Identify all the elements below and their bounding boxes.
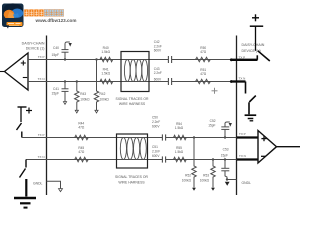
- svg-text:TX P: TX P: [239, 132, 246, 136]
- op-amp U1 (receiver, device 1): [0, 53, 28, 90]
- svg-text:47Ω: 47Ω: [200, 72, 207, 76]
- svg-text:www.dfbw123.com: www.dfbw123.com: [35, 18, 77, 23]
- svg-text:DEVICE (1): DEVICE (1): [26, 46, 45, 50]
- svg-text:100kΩ: 100kΩ: [182, 179, 192, 183]
- svg-text:100kΩ: 100kΩ: [200, 179, 210, 183]
- resistor R55: [174, 157, 187, 161]
- svg-text:47Ω: 47Ω: [78, 125, 85, 129]
- capacitor C53: [221, 158, 229, 185]
- svg-text:1.5kΩ: 1.5kΩ: [101, 71, 110, 75]
- svg-text:100kΩ: 100kΩ: [100, 97, 110, 101]
- resistor R50: [196, 57, 211, 61]
- ground (device 1): [14, 198, 36, 208]
- svg-text:15pF: 15pF: [208, 123, 215, 127]
- top harness label: [116, 97, 150, 106]
- switch (device 1 lower) to ground: [20, 160, 27, 197]
- resistor R52: [192, 136, 196, 191]
- svg-text:WIRE HARNESS: WIRE HARNESS: [119, 102, 146, 106]
- ground (device N): [245, 115, 257, 121]
- svg-text:C43: C43: [154, 67, 160, 71]
- svg-text:SIGNAL TRACES OR: SIGNAL TRACES OR: [116, 97, 150, 101]
- wire: op-amp + input: [28, 59, 47, 61]
- capacitor C50: [162, 134, 166, 140]
- resistor R54: [174, 135, 187, 139]
- svg-text:2.2nF: 2.2nF: [152, 120, 160, 124]
- svg-text:R52: R52: [185, 174, 191, 178]
- resistor R45: [75, 157, 88, 161]
- bold pin wire C (device N): [237, 136, 258, 138]
- capacitor C52: [221, 122, 232, 139]
- svg-text:15pF: 15pF: [51, 92, 59, 96]
- twisted pair box (bottom): [117, 134, 148, 168]
- svg-text:R53: R53: [203, 174, 209, 178]
- wire A (top line): [47, 59, 232, 61]
- svg-text:600V: 600V: [154, 78, 162, 82]
- twisted pair coils (bottom): [120, 138, 146, 160]
- svg-text:600V: 600V: [152, 154, 160, 158]
- resistor R40: [100, 57, 113, 61]
- switch (device N lower) to ground: [230, 80, 256, 114]
- GNDL wire + arrow (left): [47, 181, 63, 191]
- svg-text:1.5kΩ: 1.5kΩ: [101, 50, 110, 54]
- wire: op-amp - input: [28, 81, 47, 83]
- svg-text:R42: R42: [100, 92, 106, 96]
- svg-text:SIGNAL TRACES OR: SIGNAL TRACES OR: [115, 175, 149, 179]
- svg-text:600V: 600V: [152, 124, 160, 128]
- wire D (bottom lower line): [47, 159, 237, 161]
- resistor R53: [211, 158, 215, 191]
- GNDL wire (right): [227, 179, 237, 181]
- svg-text:C51: C51: [152, 145, 158, 149]
- twisted pair coils (top): [124, 60, 147, 82]
- capacitor C41: [62, 80, 69, 104]
- polarity mark +: [212, 88, 218, 94]
- svg-text:DAISY-CHAIN: DAISY-CHAIN: [22, 42, 45, 46]
- wire: device 1 pin to switch (wire C inside): [22, 137, 47, 139]
- svg-text:WIRE HARNESS: WIRE HARNESS: [118, 180, 145, 184]
- svg-text:TX P: TX P: [38, 133, 45, 137]
- bold pin wire D (device N): [237, 158, 258, 160]
- twisted pair box (top): [121, 52, 149, 92]
- svg-text:TX N: TX N: [38, 155, 45, 159]
- resistor R51: [196, 79, 211, 83]
- svg-text:C53: C53: [223, 148, 229, 152]
- wire: device 1 lower pin (wire D inside): [26, 159, 47, 161]
- op-amp U2 (receiver, device N): [258, 131, 300, 164]
- svg-text:C41: C41: [53, 87, 59, 91]
- capacitor C40: [62, 42, 72, 61]
- device N label: [242, 43, 265, 53]
- svg-text:2.2nF: 2.2nF: [154, 71, 162, 75]
- resistor R42: [94, 58, 98, 113]
- svg-text:TX P: TX P: [38, 55, 45, 59]
- svg-text:TX N: TX N: [239, 154, 246, 158]
- wire C (bottom top line): [47, 137, 237, 139]
- svg-text:1.5kΩ: 1.5kΩ: [175, 126, 184, 130]
- svg-text:600V: 600V: [154, 49, 162, 53]
- battery cell (device 1): [18, 107, 33, 122]
- battery cell (device N): [250, 14, 263, 51]
- resistor R43: [75, 80, 79, 113]
- svg-text:C40: C40: [53, 46, 59, 50]
- svg-text:15pF: 15pF: [221, 153, 228, 157]
- wire B (second line): [47, 81, 232, 83]
- device N boundary: [236, 36, 238, 196]
- bottom harness label: [115, 175, 149, 184]
- capacitor C42: [168, 56, 172, 63]
- svg-text:47Ω: 47Ω: [200, 50, 207, 54]
- svg-text:2.2nF: 2.2nF: [152, 150, 160, 154]
- svg-text:GNDL: GNDL: [33, 182, 43, 186]
- switch (device N top): [230, 51, 270, 61]
- resistor R41: [100, 79, 113, 83]
- svg-text:C50: C50: [152, 115, 158, 119]
- device 1 label: [22, 42, 45, 51]
- capacitor C43: [168, 78, 172, 85]
- svg-text:TX N: TX N: [239, 77, 246, 81]
- svg-text:TX N: TX N: [38, 77, 45, 81]
- svg-text:GNDL: GNDL: [242, 181, 252, 185]
- capacitor C51: [162, 156, 166, 162]
- svg-text:1.5kΩ: 1.5kΩ: [175, 150, 184, 154]
- logo icon: [2, 3, 24, 28]
- svg-text:R43: R43: [80, 92, 86, 96]
- switch (device 1 top, to wire C): [17, 123, 22, 138]
- svg-text:47Ω: 47Ω: [78, 150, 85, 154]
- logo cjk text: [24, 9, 63, 16]
- svg-text:15pF: 15pF: [51, 53, 59, 57]
- svg-text:DAISY-CHAIN: DAISY-CHAIN: [242, 43, 265, 47]
- svg-text:100kΩ: 100kΩ: [80, 97, 90, 101]
- device 1 boundary: [46, 36, 48, 196]
- resistor R44: [75, 135, 88, 139]
